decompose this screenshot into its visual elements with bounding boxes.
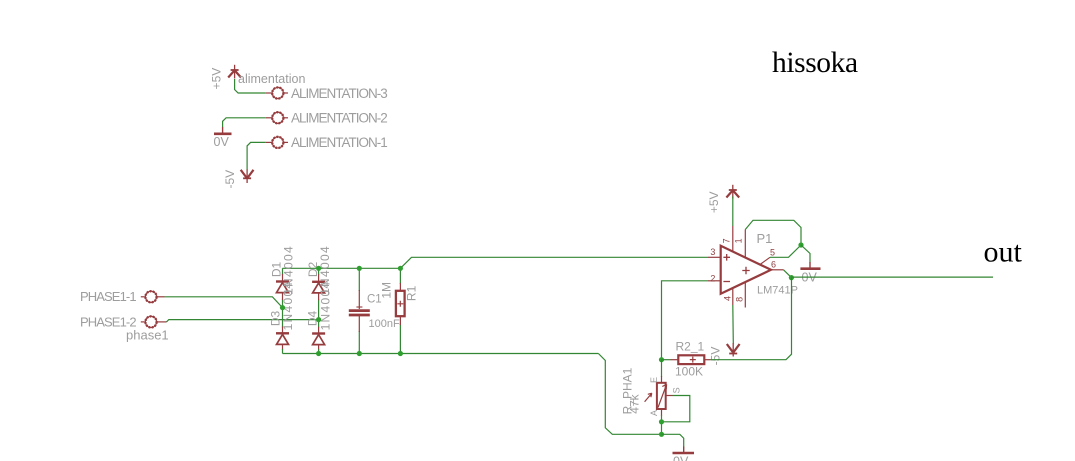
diode D1: [276, 282, 289, 293]
wire bridge bottom rail: [283, 353, 599, 355]
wire 0V to ALIMENTATION-2: [223, 118, 266, 128]
pin tick ALIMENTATION-3: [284, 92, 288, 94]
junction dot feedback node: [659, 357, 664, 362]
wire pin2 to feedback node: [662, 281, 709, 360]
pin tick PHASE1-1: [141, 296, 145, 298]
junction dot pot ground node: [659, 432, 664, 437]
connector pad ALIMENTATION-2: [272, 112, 283, 123]
connector pad ALIMENTATION-1: [272, 137, 283, 148]
diode D2/D4 pins: [318, 274, 320, 333]
pin stub R2 left: [662, 359, 671, 361]
pin stub 8: [744, 282, 746, 307]
junction dots bridge: [280, 266, 403, 356]
op-amp minus input mark: [723, 281, 730, 283]
svg-text:R1: R1: [405, 285, 419, 301]
svg-text:100nF: 100nF: [369, 318, 400, 330]
svg-text:S: S: [672, 387, 682, 393]
wire output to out: [791, 276, 993, 278]
wire trimmer bottom to ground node: [661, 415, 663, 435]
trimmer R_PHA1: [645, 383, 667, 409]
diode D2 vertical connections: [318, 268, 320, 327]
op-amp plus input mark: [723, 254, 730, 261]
svg-text:3: 3: [710, 247, 715, 257]
pin stub trimmer wiper S: [666, 395, 673, 397]
svg-text:A: A: [649, 410, 659, 416]
svg-text:ALIMENTATION-1: ALIMENTATION-1: [291, 135, 387, 150]
svg-text:1: 1: [734, 238, 744, 243]
pin stub ALIMENTATION-3: [266, 92, 272, 94]
diode D1/D3 pins: [282, 274, 284, 333]
pin stub 5: [760, 257, 770, 264]
ground symbol 0V (bottom): [673, 447, 695, 454]
wire PHASE1-2 to bridge node D2/D4: [167, 320, 319, 322]
connector pad PHASE1-2: [145, 316, 156, 327]
connector pad ALIMENTATION-3: [272, 87, 283, 98]
svg-text:+5V: +5V: [707, 191, 721, 213]
wire +5V arrow to ALIMENTATION-3: [235, 79, 266, 93]
capacitor C1 connections: [358, 268, 360, 353]
pin tick ALIMENTATION-2: [284, 117, 288, 119]
svg-text:ALIMENTATION-2: ALIMENTATION-2: [291, 111, 387, 126]
resistor R1 connections: [399, 268, 401, 353]
junction dot wiper node: [659, 419, 664, 424]
svg-text:phase1: phase1: [126, 328, 169, 343]
ground symbol 0V (op-amp): [800, 262, 820, 269]
svg-text:6: 6: [771, 260, 776, 270]
svg-text:4: 4: [722, 296, 732, 301]
wire pin6 to output node: [784, 270, 792, 278]
svg-text:0V: 0V: [214, 135, 230, 149]
svg-text:100K: 100K: [675, 365, 703, 379]
capacitor C1: [349, 307, 370, 315]
wire PHASE1-1 to bridge node D1/D3: [165, 297, 283, 308]
trimmer pin E: [661, 376, 663, 383]
op-amp center plus mark: [742, 267, 749, 274]
svg-text:ALIMENTATION-3: ALIMENTATION-3: [291, 86, 387, 101]
resistor R2: [678, 355, 704, 364]
wire pot ground node to 0V ground: [662, 434, 684, 447]
pin stub 3: [708, 256, 721, 258]
pin stub 4: [732, 288, 734, 305]
diode D4 bottom connection: [318, 345, 320, 351]
svg-text:P1: P1: [757, 231, 773, 246]
supply symbol +5V (alimentation header): [228, 65, 241, 79]
pin stub 1: [744, 230, 746, 258]
wire pin1 loop to offset node: [745, 220, 801, 245]
pin stub 6: [771, 269, 784, 271]
pin stub PHASE1-2: [158, 321, 167, 323]
wire trimmer wiper S loop: [662, 396, 690, 422]
trimmer pin A: [661, 409, 663, 416]
svg-text:1M: 1M: [380, 282, 394, 299]
resistor R1: [396, 291, 405, 316]
pin stub R2 right: [704, 359, 710, 361]
svg-text:0V: 0V: [673, 455, 689, 461]
junction dot output node: [789, 275, 794, 280]
wire feedback node to trimmer R_PHA1: [661, 360, 663, 377]
svg-text:PHASE1-1: PHASE1-1: [80, 289, 136, 304]
pin stub PHASE1-1: [158, 296, 165, 298]
wire pin4 to -5V arrow: [732, 305, 735, 344]
svg-text:R2_1: R2_1: [676, 340, 705, 354]
pin stub 7: [732, 226, 734, 252]
wire bridge top rail: [283, 267, 401, 269]
pin tick ALIMENTATION-1: [284, 141, 288, 143]
pin stub ALIMENTATION-2: [266, 117, 272, 119]
diode D1 vertical connections: [282, 268, 284, 327]
wire offset node to ground: [801, 245, 810, 263]
diode D4: [312, 334, 325, 345]
diode D2: [312, 282, 325, 293]
diode D3 bottom connection: [282, 344, 284, 350]
svg-text:-5V: -5V: [708, 347, 722, 366]
wire R2 right to output feedback: [711, 278, 792, 360]
svg-text:E: E: [649, 377, 659, 383]
connector pad PHASE1-1: [145, 291, 156, 302]
wire -5V to ALIMENTATION-1: [247, 142, 266, 169]
resistor R1 pins: [399, 283, 401, 325]
supply symbol +5V (op-amp): [726, 185, 739, 199]
pin stub ALIMENTATION-1: [266, 141, 272, 143]
wire bottom rail down to pot ground node: [598, 354, 661, 435]
capacitor C1 pins: [358, 290, 360, 332]
svg-text:8: 8: [735, 297, 745, 302]
ground symbol 0V (header): [214, 127, 232, 134]
pin stub 2: [708, 280, 721, 282]
diode D3: [276, 333, 289, 344]
svg-text:5: 5: [770, 248, 775, 258]
svg-text:hissoka: hissoka: [772, 47, 858, 79]
svg-text:+5V: +5V: [210, 68, 224, 90]
supply symbol -5V (op-amp): [727, 343, 740, 357]
svg-text:2: 2: [710, 274, 715, 284]
pin tick PHASE1-2: [141, 321, 145, 323]
supply symbol -5V (header): [241, 169, 254, 183]
svg-text:alimentation: alimentation: [238, 72, 305, 86]
wire pin5 to offset node: [770, 245, 801, 257]
svg-text:7: 7: [722, 238, 732, 243]
svg-text:1N4004: 1N4004: [319, 281, 333, 331]
wire top rail to op-amp pin3: [400, 257, 708, 268]
svg-text:out: out: [984, 236, 1023, 269]
svg-text:47k: 47k: [628, 393, 642, 413]
svg-text:-5V: -5V: [223, 170, 237, 189]
op-amp P1 LM741P triangle: [721, 246, 771, 294]
junction dot offset node: [798, 242, 803, 247]
wire +5V arrow to pin7: [732, 197, 734, 227]
